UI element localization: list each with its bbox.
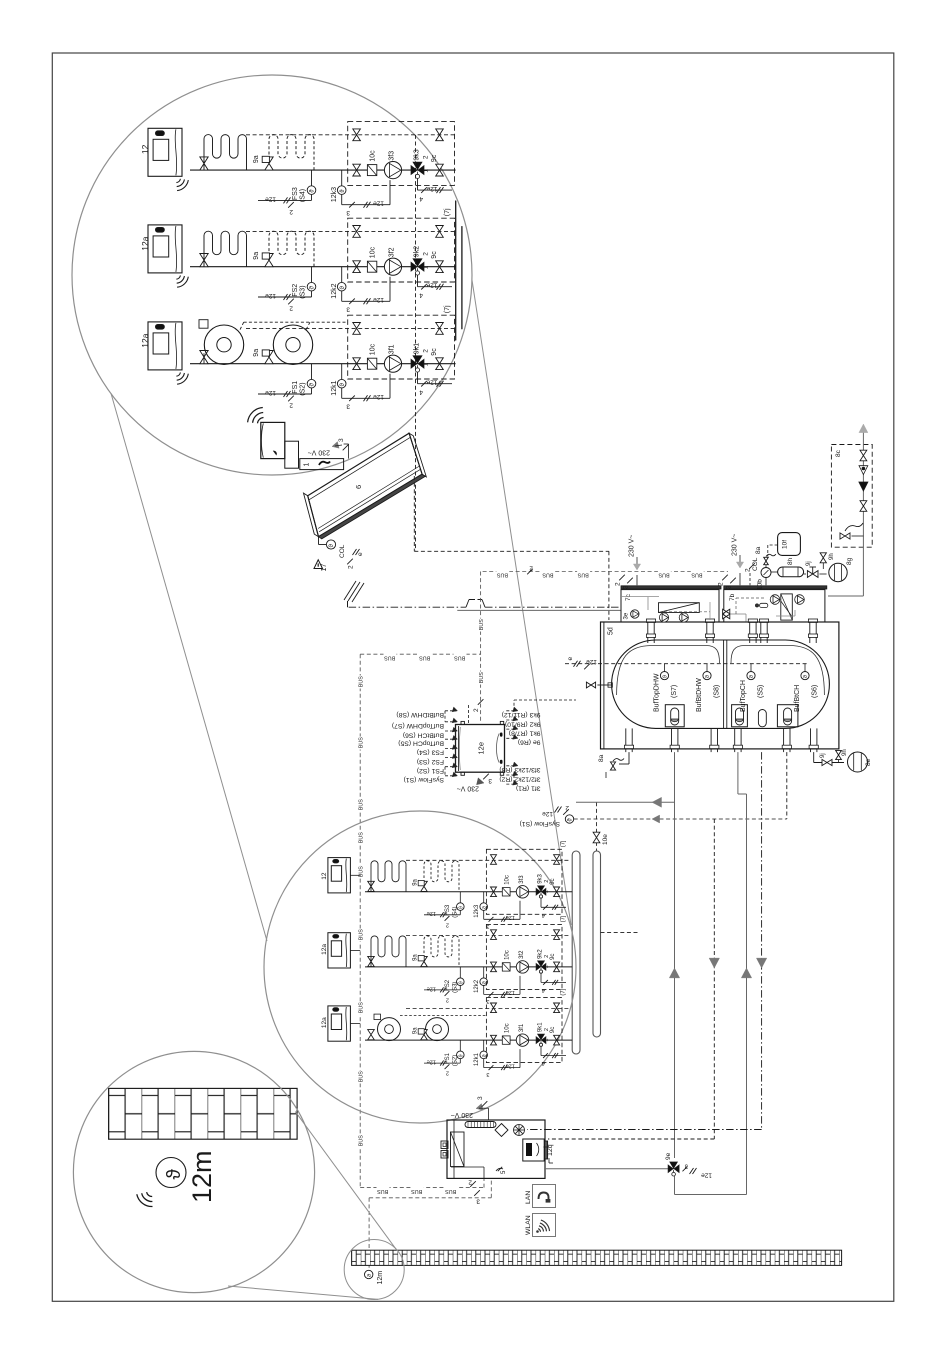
tank bottom port [624, 728, 633, 752]
output 9k1 (R7/8) [506, 725, 518, 730]
svg-text:FS1 (S2): FS1 (S2) [417, 767, 444, 774]
svg-text:1: 1 [423, 265, 430, 269]
pipe dashdot drop [527, 752, 762, 1129]
svg-text:3: 3 [623, 585, 630, 589]
valve 9a with actuator [262, 156, 273, 170]
svg-text:3: 3 [486, 1071, 489, 1077]
label 2 wire count [288, 299, 294, 312]
svg-text:ϑ: ϑ [458, 981, 464, 984]
wire flow pipe [190, 169, 456, 171]
tank top port [808, 619, 817, 643]
svg-text:9c: 9c [550, 954, 556, 960]
label 12e tag 9e [683, 1163, 713, 1179]
svg-text:2: 2 [289, 402, 293, 409]
tank divider [724, 640, 727, 728]
wire dashed return [406, 934, 571, 936]
mixing valve 9k1 [411, 359, 417, 368]
bus riser thermostats [359, 654, 361, 1187]
valve on return right [436, 226, 444, 238]
radiator B [426, 1018, 449, 1041]
svg-text:BUS: BUS [358, 929, 364, 940]
svg-text:(S3): (S3) [453, 982, 459, 993]
input FS3 (S4) [445, 745, 458, 750]
svg-text:9j: 9j [806, 561, 812, 566]
valve 9c [554, 887, 560, 897]
controller 12e [456, 721, 505, 775]
sensor FS2 (S3) [258, 267, 316, 300]
zoom bubble circle 12m [73, 1051, 314, 1292]
svg-text:9a: 9a [253, 155, 260, 163]
heat exchanger 7c [659, 603, 700, 613]
sensor 10b gauge [761, 568, 771, 586]
svg-text:10c: 10c [505, 950, 511, 960]
svg-text:(S4): (S4) [300, 189, 307, 202]
svg-text:3f3: 3f3 [519, 875, 525, 884]
strainer 10c [502, 963, 510, 971]
thermostat 12a [328, 1006, 351, 1041]
svg-text:ϑ: ϑ [482, 1054, 488, 1057]
fan [514, 1125, 525, 1136]
svg-text:9c: 9c [431, 251, 438, 259]
valve on return [491, 855, 497, 865]
safety group 8a tank [606, 752, 629, 778]
svg-text:4: 4 [419, 195, 423, 202]
svg-text:(S4): (S4) [453, 906, 459, 917]
valve on return [353, 226, 361, 238]
svg-text:3: 3 [346, 403, 350, 410]
svg-text:7c: 7c [625, 593, 632, 601]
svg-text:1: 1 [544, 965, 550, 968]
svg-text:9k2: 9k2 [538, 949, 544, 959]
coil loop B [424, 936, 459, 967]
valve 9h upper [820, 553, 826, 569]
svg-text:9a: 9a [413, 878, 419, 885]
svg-text:9a: 9a [413, 954, 419, 961]
wire dashed return [246, 230, 455, 232]
valve [200, 254, 208, 267]
svg-text:9k1: 9k1 [414, 343, 421, 354]
sensor COL collector [319, 537, 336, 549]
svg-text:BUS: BUS [358, 1135, 364, 1146]
wire flow pipe [190, 266, 456, 268]
svg-text:e: e [567, 657, 574, 661]
svg-text:12e: 12e [426, 185, 437, 192]
bus line horizontal boiler [360, 1187, 484, 1189]
svg-text:12e: 12e [506, 914, 515, 920]
svg-text:3: 3 [338, 438, 345, 442]
svg-text:12e: 12e [427, 910, 436, 916]
coil loop B [269, 231, 314, 267]
input SysFlow (S1) [445, 772, 458, 777]
svg-text:ϑ: ϑ [458, 1054, 464, 1057]
svg-text:2: 2 [423, 349, 430, 353]
pipe dashed tank drop [786, 752, 788, 819]
valve on flow [353, 358, 361, 370]
double valve 7b [723, 609, 730, 619]
thermostat 12a [148, 225, 188, 287]
label e tag [567, 657, 597, 670]
sensor 12k1 [337, 364, 390, 402]
svg-text:BUS: BUS [358, 832, 364, 843]
fittings left [441, 1141, 448, 1158]
svg-text:12e: 12e [477, 742, 486, 755]
svg-text:FS3: FS3 [445, 904, 451, 916]
input FS2 (S3) [445, 754, 458, 759]
valve [368, 1030, 375, 1040]
svg-text:9a: 9a [413, 1027, 419, 1034]
wire sensor dashed [565, 663, 807, 665]
svg-text:230 V~: 230 V~ [732, 534, 739, 556]
strainer 10c [502, 888, 510, 896]
pump 3e [631, 610, 639, 618]
bus drop 12m thermostat [369, 1178, 491, 1270]
svg-text:2: 2 [446, 996, 449, 1002]
svg-text:1: 1 [544, 1038, 550, 1041]
input BufBtCH (S6) [445, 727, 458, 732]
svg-text:BUS: BUS [384, 654, 395, 660]
svg-text:12m: 12m [187, 1150, 217, 1203]
svg-text:12e: 12e [506, 1062, 515, 1068]
wifi arcs repeater [258, 418, 264, 424]
tank body capsule [612, 640, 830, 728]
power arrow 230V left [629, 535, 641, 570]
svg-text:7b: 7b [729, 593, 736, 601]
valve on return right [436, 323, 444, 335]
label 2 wire count [288, 202, 294, 215]
valve on flow [491, 887, 497, 897]
valve 9a with actuator [262, 253, 273, 267]
label 12e tag sysflow [542, 804, 569, 817]
leader 12m upper [295, 1112, 396, 1250]
valve on flow [491, 962, 497, 972]
coil loop A [204, 135, 247, 171]
solar collector 6 [308, 433, 422, 537]
valve 8c top [860, 450, 867, 461]
svg-text:BUS: BUS [358, 676, 364, 687]
label 2 wire count [445, 916, 450, 927]
svg-text:8a: 8a [755, 546, 762, 554]
bus line horizontal upper [483, 571, 728, 573]
svg-text:BufTopCH: BufTopCH [740, 680, 747, 712]
tank top port [748, 619, 757, 643]
svg-text:230 V~: 230 V~ [629, 535, 636, 557]
svg-text:3: 3 [476, 1198, 480, 1205]
svg-text:BUS: BUS [542, 572, 553, 578]
leader line left [111, 393, 267, 941]
svg-text:ϑ: ϑ [164, 1169, 185, 1180]
label 2 wire count bus [527, 565, 533, 575]
svg-text:(7j: (7j [444, 208, 451, 216]
pump 3f3 [516, 886, 528, 898]
manifold pipe capsule B [593, 851, 601, 1037]
radiator A [199, 320, 244, 365]
labels 2 3 right [718, 573, 741, 589]
svg-text:FS2: FS2 [445, 979, 451, 991]
output corner dashes [514, 700, 576, 784]
svg-text:3: 3 [488, 777, 492, 784]
output 9k3 (R11/12) [506, 707, 518, 712]
svg-text:9k1 (R7/8): 9k1 (R7/8) [509, 729, 541, 736]
output 3f1 (R1) [506, 780, 518, 785]
compressor [495, 1124, 508, 1137]
heater port A [665, 705, 684, 727]
mixing valve 9k3 [536, 888, 540, 895]
wire dashed return [406, 859, 571, 861]
wire mixer sensor lead [418, 372, 453, 387]
warning label 17 [314, 560, 328, 572]
svg-text:2: 2 [745, 568, 752, 572]
svg-text:10c: 10c [370, 246, 377, 258]
svg-text:17: 17 [321, 564, 328, 572]
valve [200, 351, 208, 364]
grille [465, 1122, 496, 1128]
pump 3f3 [384, 162, 401, 179]
display 12q [523, 1139, 548, 1161]
svg-text:3e: 3e [624, 612, 630, 619]
wire mixer sensor lead [541, 973, 566, 985]
sensor FS1 (S2) [258, 364, 316, 397]
valve 9c [436, 261, 444, 273]
wire gray supply [457, 609, 621, 611]
svg-text:12a: 12a [321, 944, 328, 955]
pipe dashed drop [548, 819, 714, 1139]
svg-text:12e: 12e [265, 195, 276, 202]
pump group dashed box 7j [348, 315, 455, 379]
svg-text:9k3: 9k3 [538, 873, 544, 883]
svg-text:SysFlow (S1): SysFlow (S1) [404, 776, 444, 783]
valve on return right [436, 129, 444, 141]
tank bottom port [809, 728, 818, 752]
wire mixer sensor lead [418, 275, 453, 290]
svg-text:(7j: (7j [561, 989, 567, 996]
heater port B [732, 705, 748, 727]
svg-text:10e: 10e [602, 834, 609, 845]
svg-text:9h: 9h [842, 749, 848, 756]
pipe dashed capsule link [601, 932, 641, 934]
wire radiator link dashed [240, 322, 348, 330]
svg-text:COL: COL [752, 557, 759, 571]
svg-text:12e: 12e [426, 282, 437, 289]
svg-text:10c: 10c [505, 875, 511, 885]
wire dashed 12e top stub [468, 705, 470, 725]
sensor 12k1 [480, 1040, 520, 1070]
heater port C [777, 705, 798, 727]
svg-text:2: 2 [473, 708, 480, 712]
tank bottom port [670, 728, 679, 752]
svg-text:BUS: BUS [479, 672, 485, 683]
svg-text:FS3 (S4): FS3 (S4) [417, 749, 444, 756]
pump group dashed box 7j [486, 924, 562, 989]
wire dashed return [246, 134, 455, 136]
svg-text:2: 2 [565, 804, 569, 811]
svg-text:BUS: BUS [358, 1002, 364, 1013]
pump 3f1 [384, 355, 401, 372]
wire bus link [350, 1023, 360, 1025]
svg-text:12a: 12a [140, 333, 150, 347]
valve 10e [593, 802, 600, 851]
svg-text:9c: 9c [431, 348, 438, 356]
svg-text:12e: 12e [265, 292, 276, 299]
svg-text:2: 2 [289, 305, 293, 312]
svg-text:(S5): (S5) [758, 685, 765, 698]
strainer 10c [367, 165, 376, 176]
label 3 wire count [346, 202, 355, 216]
output 3f2/12k2 (R2) [506, 771, 518, 776]
manifold pipe cut A [455, 201, 457, 340]
wire solar dashed [414, 476, 609, 620]
pump group dashed box 7j [486, 998, 562, 1063]
label 2 wire count [445, 1064, 450, 1075]
mixing valve 9k3 [411, 166, 417, 175]
valve 9a with actuator [262, 350, 273, 364]
thermostat 12 [148, 128, 188, 190]
valve 9j upper [804, 567, 827, 577]
filled valve 8c [859, 482, 868, 491]
thermostat 12 [328, 858, 351, 893]
sensor pill 7b [755, 603, 767, 607]
svg-text:1: 1 [544, 890, 550, 893]
svg-text:3f2: 3f2 [519, 950, 525, 959]
svg-text:BUS: BUS [419, 654, 430, 660]
svg-text:FS1: FS1 [292, 381, 299, 394]
svg-text:12e: 12e [542, 810, 553, 817]
svg-text:(S7): (S7) [671, 685, 678, 698]
svg-text:BufBtDHW (S8): BufBtDHW (S8) [396, 711, 444, 718]
svg-text:9k2 (R9/10): 9k2 (R9/10) [505, 720, 541, 727]
label 4 wire count [419, 187, 427, 202]
svg-text:ϑ: ϑ [482, 981, 488, 984]
radiator A [374, 1014, 401, 1041]
svg-text:10c: 10c [370, 343, 377, 355]
sensor FS3 (S4) [424, 892, 464, 918]
svg-text:(S2): (S2) [453, 1055, 459, 1066]
valve [368, 956, 375, 966]
svg-text:2: 2 [446, 1070, 449, 1076]
input corner dashes [444, 711, 446, 776]
pipe supply solid [675, 752, 747, 1194]
svg-text:3: 3 [726, 585, 733, 589]
svg-text:COL: COL [339, 544, 346, 558]
svg-text:BUS: BUS [411, 1188, 422, 1194]
wire flow pipe [190, 363, 456, 365]
svg-text:12k1: 12k1 [331, 380, 338, 395]
svg-text:BUS: BUS [691, 572, 702, 578]
svg-text:12k2: 12k2 [474, 979, 480, 993]
svg-text:4: 4 [419, 292, 423, 299]
svg-text:10c: 10c [505, 1023, 511, 1033]
svg-text:6: 6 [354, 485, 363, 489]
svg-text:12k1: 12k1 [474, 1052, 480, 1066]
wire flow pipe [365, 1039, 572, 1041]
coil loop B [269, 135, 314, 171]
safety valve 8a upper [764, 554, 776, 567]
safety group box 8c [831, 445, 872, 548]
svg-text:BufBtDHW: BufBtDHW [696, 678, 703, 712]
svg-text:9h: 9h [829, 553, 835, 560]
svg-text:12m: 12m [377, 1271, 384, 1285]
label 2 wire count [468, 1179, 476, 1187]
vessel 8h [771, 567, 804, 577]
valve on return right [554, 1003, 560, 1013]
valve on return [491, 930, 497, 940]
svg-text:9e (R6): 9e (R6) [518, 739, 541, 746]
svg-text:8e: 8e [865, 758, 872, 766]
valve on return right [554, 930, 560, 940]
svg-text:9k2: 9k2 [414, 246, 421, 257]
svg-text:BUS: BUS [445, 1188, 456, 1194]
thermostat 12a [328, 933, 351, 968]
valve on return [491, 1003, 497, 1013]
valve 9a with actuator [418, 956, 427, 967]
expansion vessel 8g [829, 563, 847, 581]
svg-text:4: 4 [542, 912, 545, 918]
svg-text:1: 1 [304, 463, 311, 467]
leader line right [472, 280, 571, 925]
svg-text:3: 3 [477, 1096, 484, 1100]
tank inner contour [617, 646, 825, 696]
label 2 wire [347, 549, 364, 569]
svg-text:SysFlow (S1): SysFlow (S1) [520, 820, 560, 827]
svg-text:BUS: BUS [479, 619, 485, 630]
bus line horizontal mid [360, 653, 480, 655]
label 230V 12e [457, 774, 492, 792]
svg-text:12e: 12e [426, 379, 437, 386]
pump group dashed box 7j [348, 218, 455, 282]
svg-text:12e: 12e [265, 389, 276, 396]
label 4 wire count [419, 284, 427, 299]
wire dashed riser [415, 135, 417, 551]
svg-text:(S8): (S8) [714, 685, 721, 698]
svg-text:ϑ: ϑ [482, 906, 488, 909]
valve on return [353, 323, 361, 335]
radiator B [273, 325, 312, 364]
socket box 1 [285, 441, 344, 469]
svg-text:10c: 10c [370, 150, 377, 162]
svg-text:12a: 12a [321, 1017, 328, 1028]
svg-text:3f2/12k2 (R2): 3f2/12k2 (R2) [499, 775, 540, 782]
input BufTopCH (S5) [445, 735, 458, 740]
svg-text:1: 1 [423, 362, 430, 366]
svg-text:3: 3 [346, 306, 350, 313]
heat exchanger 7b [781, 594, 793, 620]
condensate drain 5 [496, 1167, 507, 1174]
sensor BufBtCH (S6) [801, 664, 809, 680]
wire 10f dashed [768, 545, 778, 557]
svg-text:WLAN: WLAN [525, 1215, 532, 1235]
svg-text:2: 2 [615, 582, 622, 586]
sensor BufBtDHW (S8) [703, 664, 711, 680]
WLAN box [533, 1214, 556, 1237]
svg-text:12k3: 12k3 [331, 187, 338, 202]
svg-text:3f3/12k3 (R3): 3f3/12k3 (R3) [499, 766, 540, 773]
svg-text:8a: 8a [598, 754, 605, 762]
pipe header arrow [576, 797, 675, 807]
label 4 wire count [542, 1053, 548, 1066]
svg-text:3: 3 [486, 923, 489, 929]
pump 3f2 [384, 258, 401, 275]
strainer 10c [502, 1036, 510, 1044]
svg-text:3: 3 [486, 998, 489, 1004]
label 3 wire count [474, 1190, 480, 1204]
svg-text:BUS: BUS [454, 654, 465, 660]
pump 7c b [679, 613, 688, 622]
thermostat dial 12m [156, 1158, 186, 1188]
valve on return right [554, 855, 560, 865]
svg-text:BufBtCH (S6): BufBtCH (S6) [403, 731, 444, 738]
svg-text:(7j: (7j [561, 916, 567, 923]
arrow up supply [669, 968, 679, 978]
svg-text:(7j: (7j [444, 305, 451, 313]
